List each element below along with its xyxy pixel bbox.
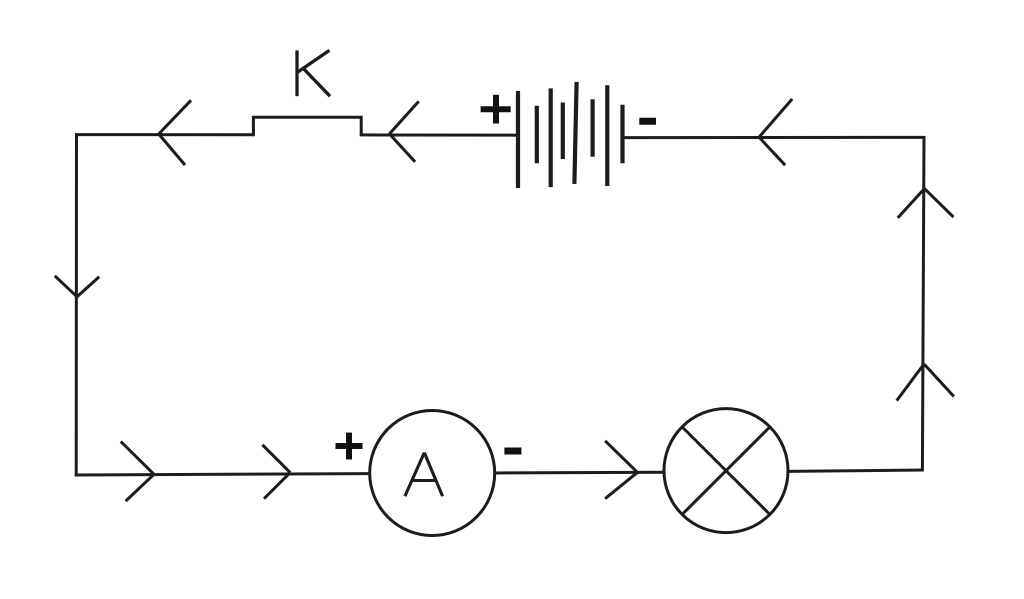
wire top right segment [623, 136, 926, 139]
wire bottom right segment [788, 470, 924, 471]
battery GB plate 1 (long, +) [516, 91, 520, 188]
label - (battery negative) [639, 118, 656, 125]
battery GB plate 2 (short) [535, 106, 539, 164]
label A (ammeter letter) [405, 453, 443, 497]
current arrow top-left (pointing left) [159, 100, 191, 165]
battery GB plate 8 (short, -) [620, 105, 624, 164]
wire right vertical [922, 136, 924, 471]
battery GB plate 4 (short) [561, 103, 565, 160]
current arrow right wire lower (pointing up) [897, 364, 954, 401]
label + (ammeter positive) [336, 433, 363, 460]
battery GB plate 5 (long) [574, 82, 576, 184]
wire left vertical [75, 133, 78, 476]
current arrow top-middle (pointing left) [389, 101, 418, 161]
current arrow bottom-middle (pointing right) [605, 441, 637, 499]
wire bottom left segment [75, 474, 370, 475]
lamp L1 [664, 409, 788, 533]
ammeter A [370, 411, 495, 536]
label K [297, 50, 330, 96]
battery GB plate 3 (long) [549, 88, 553, 187]
switch K [253, 117, 361, 136]
label - (ammeter negative) [504, 448, 521, 455]
current arrow right wire upper (pointing up) [898, 189, 954, 218]
wire top left segment [75, 133, 253, 136]
battery GB plate 6 (short) [590, 99, 594, 157]
current arrow top-right (pointing left) [759, 99, 792, 165]
wire bottom middle segment [495, 471, 665, 475]
current arrow bottom-left-2 (pointing right) [262, 445, 290, 499]
current arrow left wire (pointing down) [55, 276, 99, 297]
wire top middle segment [360, 133, 518, 136]
battery GB plate 7 (long) [605, 85, 609, 186]
label + (battery positive) [481, 95, 511, 124]
current arrow bottom-left (pointing right) [121, 442, 154, 502]
